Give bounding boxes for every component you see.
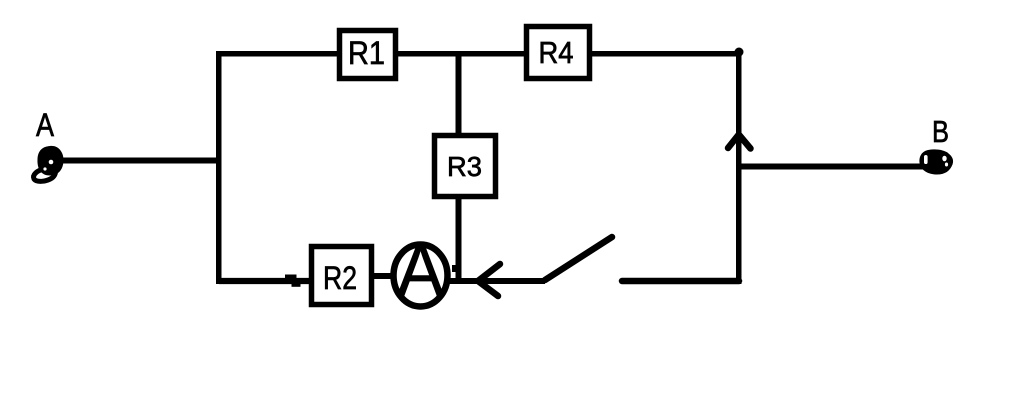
switch blade — [545, 237, 612, 280]
wire A to left vertical — [57, 158, 219, 164]
wire left vertical — [216, 51, 222, 284]
svg-text:R3: R3 — [447, 151, 482, 182]
tick mark on bottom wire — [285, 275, 297, 279]
arrowhead up on right vertical — [728, 135, 751, 149]
wire right vertical — [736, 52, 742, 284]
wire right vertical to B — [741, 164, 924, 170]
svg-text:R4: R4 — [539, 35, 574, 70]
svg-text:R2: R2 — [323, 260, 357, 296]
svg-text:A: A — [36, 107, 55, 143]
tick on middle vertical — [452, 265, 456, 272]
resistor R1 — [340, 31, 396, 79]
arrowhead on bottom wire (pointing left) — [478, 264, 500, 296]
svg-text:R1: R1 — [348, 35, 385, 71]
wire middle vertical lower — [456, 196, 462, 284]
wire bottom horizontal left — [219, 278, 310, 284]
wire top horizontal — [216, 51, 741, 57]
resistor R2 — [312, 247, 372, 305]
wire ammeter to switch — [446, 278, 545, 284]
ammeter U1 — [394, 229, 448, 312]
resistor R4 — [527, 27, 590, 79]
wire R2 to ammeter — [373, 273, 396, 279]
terminal B scribble — [919, 149, 953, 174]
svg-text:B: B — [932, 114, 949, 149]
wire switch to right vertical — [622, 278, 739, 285]
node junction dot top right — [735, 48, 744, 57]
resistor R3 — [435, 136, 496, 197]
terminal A scribble — [34, 146, 64, 181]
svg-text:A: A — [397, 229, 445, 312]
wire middle vertical upper — [456, 53, 462, 135]
